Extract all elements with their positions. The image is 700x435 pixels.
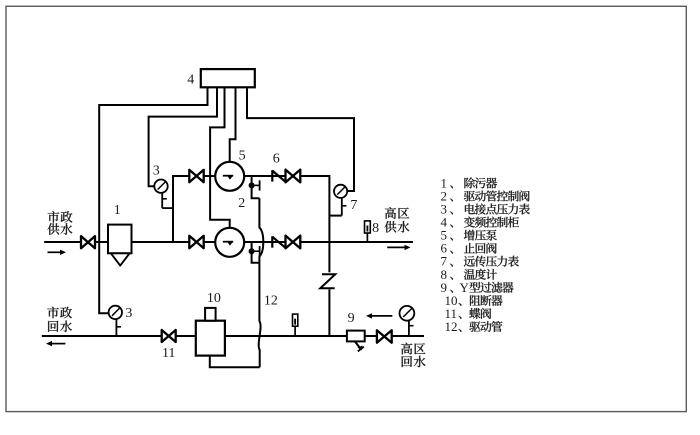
Y strainer 9 (347, 331, 365, 352)
pressure gauge 3 bottom (109, 306, 122, 336)
component number labels (114, 72, 379, 361)
drive pipe vertical with hop over bottom line (259, 198, 264, 367)
valve after check bottom (286, 236, 301, 249)
interrupter 10 (196, 308, 225, 356)
text high-zone return line1 (401, 343, 425, 355)
legend line 8 text (464, 269, 497, 280)
gauge3 top stem corner (162, 207, 173, 209)
valve V-top before pump (189, 170, 203, 182)
pipe Z-break to return line (328, 290, 330, 337)
legend line 3 text (465, 204, 530, 215)
pipe top pump discharge (244, 175, 285, 177)
legend line 4 punct (450, 225, 453, 228)
legend line 11 text (469, 308, 491, 319)
wire cabinet-to-top-pump (230, 87, 236, 162)
flow arrow supply out (387, 245, 410, 250)
pressure gauge return (400, 306, 415, 337)
pressure gauge 3 top (154, 180, 167, 209)
pipe top discharge to header corner (300, 176, 329, 242)
svg-text:1: 1 (114, 203, 121, 218)
legend line 12 punct (458, 329, 461, 332)
svg-text:3: 3 (153, 164, 160, 179)
svg-text:3: 3 (125, 306, 132, 321)
legend line 9 text (469, 282, 513, 293)
svg-text:12: 12 (445, 319, 458, 334)
drive pipe branch from bottom pump (252, 242, 260, 263)
legend line 11 punct (458, 316, 461, 319)
legend line 6 punct (450, 251, 453, 254)
pipe riser to top pump (173, 176, 215, 242)
valve 11 (162, 330, 176, 342)
legend line 1 text (464, 177, 497, 188)
legend line 10 text (470, 295, 503, 306)
svg-text:11: 11 (162, 346, 175, 361)
legend numbers (441, 175, 458, 334)
legend line 7 punct (450, 264, 453, 267)
legend line 4 text (464, 217, 519, 228)
legend line 5 text (464, 230, 497, 241)
wire cabinet-to-top-gauge3 (149, 87, 217, 186)
svg-text:Y: Y (460, 280, 470, 295)
wire cabinet-to-bottom-pump (210, 87, 230, 228)
svg-text:7: 7 (350, 198, 357, 213)
svg-text:10: 10 (207, 291, 221, 306)
check valve bottom (272, 236, 285, 247)
legend line 12 text (469, 321, 502, 332)
svg-text:12: 12 (264, 294, 278, 309)
pipe supply header to outlet (300, 241, 413, 243)
valve return right (377, 330, 392, 342)
svg-text:5: 5 (239, 148, 246, 163)
flow arrow return out (left) (46, 341, 65, 346)
component 10 drain loop (210, 356, 260, 368)
wire cabinet-to-gauge7 (247, 87, 354, 191)
pipe municipal return line (42, 335, 424, 337)
text high-zone supply line2 (385, 221, 410, 233)
pipe vertical to Z-break (328, 242, 330, 272)
legend line 8 punct (450, 277, 453, 280)
flow arrow return in (right) (366, 313, 392, 318)
legend line 10 punct (458, 303, 461, 306)
Z break symbol (320, 274, 335, 288)
legend line 9 punct (450, 290, 453, 293)
pump 5 bottom (215, 228, 244, 257)
text high-zone return line2 (402, 356, 426, 368)
flow arrow supply in (48, 250, 67, 255)
legend line 2 text (464, 191, 530, 202)
drive pipe branch from top pump (252, 176, 260, 198)
text municipal supply line1 (48, 211, 73, 223)
check valve 6 top (272, 170, 285, 181)
legend line 1 punct (450, 185, 453, 188)
valve inlet left (81, 236, 95, 248)
legend line 7 text (464, 256, 519, 267)
legend line 6 text (464, 243, 497, 254)
legend line 5 punct (450, 238, 453, 241)
gauge7 sensing stem to vertical (329, 215, 341, 217)
drive valve dot 2 bottom (249, 246, 260, 256)
valve after check top (286, 170, 301, 183)
svg-text:4: 4 (187, 72, 194, 87)
svg-text:9: 9 (348, 311, 355, 326)
control cabinet U4 (201, 69, 255, 87)
text high-zone supply line1 (385, 207, 409, 219)
svg-text:8: 8 (372, 221, 379, 236)
text municipal return line1 (47, 307, 72, 319)
svg-text:6: 6 (273, 152, 280, 167)
legend line 2 punct (450, 198, 453, 201)
strainer 1 body (108, 225, 132, 266)
thermometer 8 (365, 221, 371, 242)
pipe municipal supply line (44, 241, 215, 243)
pipe bottom pump discharge (244, 241, 285, 243)
text municipal return line2 (48, 321, 72, 333)
valve V-bottom before pump (189, 236, 203, 248)
legend line 3 punct (450, 211, 453, 214)
wire cabinet-to-bottom-gauge (99, 87, 207, 313)
drive valve dot 2 top (249, 180, 260, 190)
remote pressure gauge 7 (334, 185, 347, 216)
svg-text:2: 2 (238, 196, 245, 211)
pump 5 top (215, 162, 244, 191)
text municipal supply line2 (48, 223, 73, 235)
thermometer on return (293, 314, 298, 336)
